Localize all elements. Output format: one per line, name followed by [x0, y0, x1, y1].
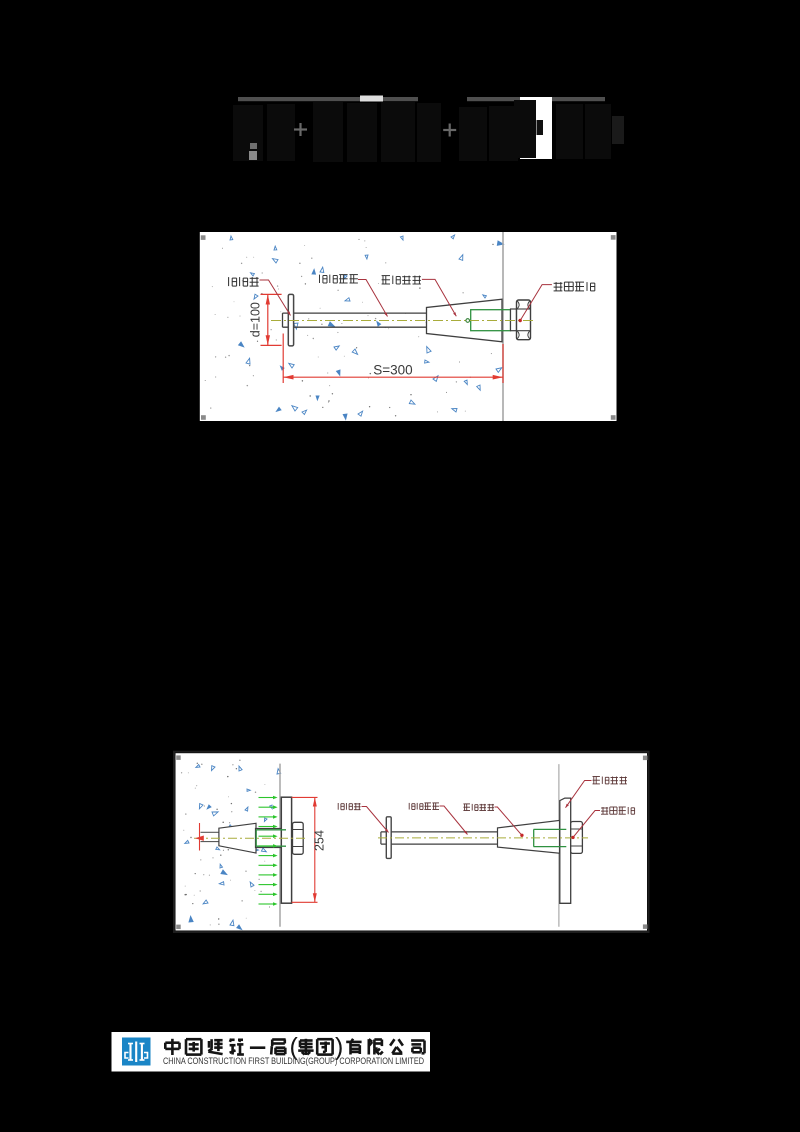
- svg-text:CHINA CONSTRUCTION FIRST BUILD: CHINA CONSTRUCTION FIRST BUILDING(GROUP)…: [163, 1056, 424, 1066]
- svg-text:254: 254: [313, 830, 327, 851]
- svg-text:d=100: d=100: [249, 302, 263, 337]
- svg-text:S=300: S=300: [373, 363, 412, 378]
